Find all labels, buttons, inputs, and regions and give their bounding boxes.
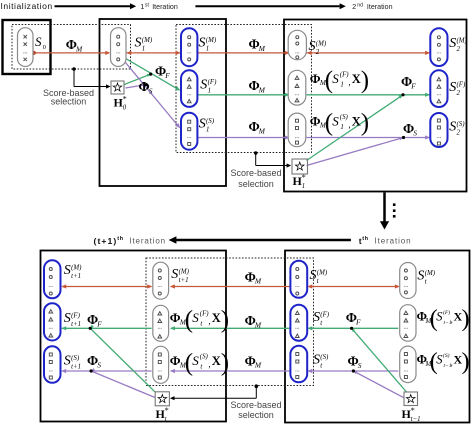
svg-text:): ) — [361, 67, 369, 94]
svg-text:,: , — [348, 77, 350, 87]
svg-text:1: 1 — [340, 81, 343, 88]
svg-text:☆: ☆ — [112, 81, 123, 95]
svg-text:S: S — [64, 354, 71, 369]
svg-text:S: S — [135, 36, 142, 51]
svg-text:M: M — [258, 126, 266, 135]
svg-text:F: F — [410, 81, 416, 90]
svg-text:S: S — [171, 267, 178, 282]
svg-text:(F): (F) — [208, 79, 218, 86]
svg-text:1: 1 — [140, 2, 144, 11]
svg-text:S: S — [413, 128, 417, 137]
svg-text:(S): (S) — [443, 352, 450, 359]
svg-text:*: * — [302, 173, 306, 182]
svg-text:M: M — [254, 320, 262, 329]
svg-text:S: S — [313, 353, 320, 368]
svg-text:,: , — [208, 359, 210, 369]
svg-text:): ) — [221, 349, 229, 376]
svg-text:2: 2 — [457, 90, 461, 97]
svg-text:M: M — [254, 277, 262, 286]
svg-text:,: , — [451, 315, 453, 325]
svg-text:Iteration: Iteration — [375, 237, 412, 246]
svg-text:2: 2 — [457, 46, 461, 53]
svg-text:t+1: t+1 — [179, 277, 189, 284]
svg-text:(S): (S) — [71, 355, 80, 362]
svg-text:selection: selection — [238, 410, 274, 420]
svg-text:F: F — [164, 71, 170, 80]
svg-text:M: M — [258, 44, 266, 53]
svg-text:S: S — [35, 34, 42, 49]
svg-text:S: S — [358, 361, 362, 370]
svg-text:th: th — [362, 236, 368, 242]
svg-text:1: 1 — [206, 46, 209, 53]
svg-text:S: S — [192, 353, 199, 368]
svg-text:(S): (S) — [457, 121, 466, 128]
svg-text:t+1: t+1 — [71, 321, 81, 328]
svg-text:(S): (S) — [320, 354, 329, 361]
svg-text:S: S — [332, 71, 339, 86]
svg-text:S: S — [199, 117, 206, 132]
svg-text:M: M — [258, 85, 266, 94]
svg-text:(M): (M) — [425, 270, 436, 277]
svg-text:F: F — [96, 319, 102, 328]
svg-text:(F): (F) — [457, 82, 467, 89]
svg-text:(M): (M) — [71, 265, 82, 272]
svg-text:(t+1): (t+1) — [94, 236, 118, 246]
svg-text:S: S — [149, 86, 153, 95]
svg-text:th: th — [117, 236, 123, 242]
svg-text:S: S — [417, 269, 424, 284]
svg-text:(M): (M) — [317, 270, 328, 277]
svg-text:Initialization: Initialization — [1, 1, 53, 11]
svg-text:): ) — [461, 349, 469, 375]
svg-text:M: M — [254, 361, 262, 370]
svg-text:(M): (M) — [179, 269, 190, 276]
svg-text:X: X — [212, 311, 221, 325]
svg-text:Iteration: Iteration — [367, 3, 393, 11]
svg-text:F: F — [355, 317, 361, 326]
svg-text:(F): (F) — [320, 312, 330, 319]
svg-text:selection: selection — [51, 97, 87, 107]
svg-text:S: S — [449, 120, 456, 135]
svg-text:M: M — [75, 44, 83, 53]
svg-text:*: * — [123, 95, 127, 104]
svg-text:S: S — [199, 36, 206, 51]
svg-text:(M): (M) — [457, 38, 468, 45]
svg-text:S: S — [64, 263, 71, 278]
svg-text:Iteration: Iteration — [152, 3, 178, 11]
svg-text:X: X — [352, 72, 361, 86]
svg-text:,: , — [208, 316, 210, 326]
svg-text:(M): (M) — [206, 37, 217, 44]
svg-text:S: S — [332, 113, 339, 128]
svg-text:Score-based: Score-based — [230, 400, 281, 410]
svg-text:*: * — [411, 406, 415, 415]
svg-text:S: S — [449, 80, 456, 95]
svg-text:(M): (M) — [316, 41, 327, 48]
svg-text:S: S — [192, 310, 199, 325]
svg-text:S: S — [310, 268, 317, 283]
svg-text:Score-based: Score-based — [230, 168, 281, 178]
svg-text:(F): (F) — [71, 313, 81, 320]
svg-text:selection: selection — [238, 179, 274, 189]
svg-text:☆: ☆ — [157, 392, 168, 406]
svg-text:,: , — [348, 120, 350, 130]
svg-text:,: , — [451, 358, 453, 368]
svg-text:): ) — [221, 306, 229, 333]
svg-text:2: 2 — [352, 2, 356, 11]
svg-text:2: 2 — [457, 130, 461, 137]
svg-text:S: S — [97, 360, 101, 369]
svg-text:0: 0 — [43, 44, 46, 51]
svg-text:1: 1 — [340, 124, 343, 131]
svg-text:S: S — [64, 311, 71, 326]
svg-text:(S): (S) — [200, 354, 209, 361]
svg-text:1: 1 — [208, 88, 211, 95]
svg-text:X: X — [212, 354, 221, 368]
svg-text:*: * — [165, 406, 169, 415]
svg-text:t+1: t+1 — [71, 364, 81, 371]
svg-text:☆: ☆ — [294, 160, 305, 174]
svg-text:S: S — [313, 310, 320, 325]
svg-text:(M): (M) — [142, 37, 153, 44]
svg-text:): ) — [461, 306, 469, 332]
svg-text:X: X — [352, 114, 361, 128]
svg-text:2: 2 — [316, 49, 320, 56]
svg-text:S: S — [200, 78, 207, 93]
svg-text:t−1: t−1 — [411, 416, 421, 423]
svg-text:1: 1 — [206, 127, 209, 134]
svg-text:☆: ☆ — [405, 392, 416, 406]
svg-text:(S): (S) — [340, 114, 349, 121]
svg-text:(F): (F) — [443, 309, 450, 316]
svg-text:): ) — [361, 110, 369, 137]
svg-text:1: 1 — [302, 183, 305, 190]
svg-text:S: S — [309, 39, 316, 54]
svg-text:st: st — [145, 2, 150, 8]
svg-text:0: 0 — [123, 105, 127, 112]
svg-text:Iteration: Iteration — [129, 237, 166, 246]
svg-text:(S): (S) — [206, 118, 215, 125]
svg-text:S: S — [449, 36, 456, 51]
svg-text:nd: nd — [357, 2, 363, 8]
svg-text:t+1: t+1 — [71, 273, 81, 280]
svg-text:1: 1 — [142, 46, 145, 53]
